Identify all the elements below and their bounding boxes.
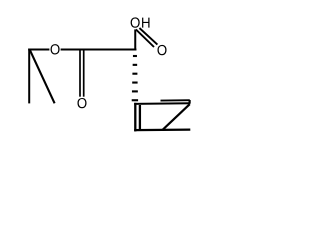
ring left double bond outer line [134, 103, 136, 132]
acid C=O double bond line 1 [136, 29, 154, 47]
bond CH(isopropyl) to ester O [28, 48, 49, 50]
ring left double bond inner line [139, 105, 141, 130]
hashed wedge alpha C to ring [132, 55, 138, 101]
methyl bond diagonal [30, 50, 55, 104]
atom label ester O [51, 44, 60, 54]
bond alpha C up to carboxyl C [134, 29, 136, 50]
upper double bond second line [161, 99, 190, 101]
ring top bond [134, 102, 190, 105]
acid C=O double bond line 2 [139, 28, 157, 45]
ester C=O double bond line 2 [83, 50, 85, 96]
right end tick [189, 100, 191, 104]
atom label carbonyl O [77, 98, 86, 108]
atom label acid O [157, 45, 166, 55]
ring diagonal bond [162, 104, 189, 130]
methyl bond vertical [28, 49, 30, 104]
atom label OH [131, 17, 150, 27]
bond ester O to carbonyl C and on to alpha C [61, 48, 137, 50]
ester C=O double bond line 1 [79, 50, 81, 96]
ring bottom bond [134, 128, 190, 131]
